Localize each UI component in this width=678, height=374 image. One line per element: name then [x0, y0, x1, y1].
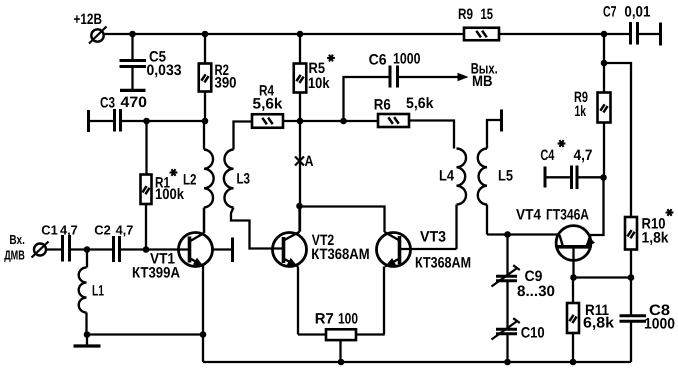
chassis stub left of C4: [544, 167, 547, 188]
resistor R6: [378, 114, 409, 127]
node R5 top: [297, 31, 304, 38]
wire R11 top lead: [572, 278, 574, 304]
wire L5 bottom lead: [486, 205, 488, 235]
label R5 value: [308, 75, 330, 92]
svg-text:L3: L3: [237, 170, 251, 187]
wire L2 top lead: [203, 121, 205, 150]
wire C7 right lead: [638, 33, 661, 35]
inductor L1: [79, 268, 87, 313]
node L1 bottom: [84, 331, 91, 338]
chassis stub right of C7: [659, 23, 662, 46]
wire VT3 collector up-left: [300, 207, 385, 233]
capacitor C2: [114, 236, 120, 262]
wire L5 to VT4 base line: [487, 233, 560, 235]
svg-text:С10: С10: [521, 324, 545, 341]
wire C4 left lead: [545, 176, 572, 178]
wire VT2 emitter down: [297, 267, 299, 335]
node C7/R9-1k top: [601, 31, 608, 38]
svg-text:ГТ346А: ГТ346А: [546, 206, 589, 223]
wire C8 bottom lead: [630, 321, 632, 362]
label R6: [374, 97, 391, 114]
label VT2: [312, 232, 334, 249]
label L3: [237, 170, 251, 187]
label R7: [315, 310, 334, 327]
svg-text:С2: С2: [94, 223, 111, 238]
node C9 column top: [504, 231, 511, 238]
capacitor C1: [63, 235, 70, 262]
node C10 on rail: [504, 359, 511, 366]
svg-text:R7: R7: [315, 310, 334, 327]
wire C1 to C2: [70, 248, 115, 250]
label C7: [603, 3, 617, 20]
wire R7 to VT3 emitter: [356, 333, 384, 336]
capacitor C6: [390, 66, 398, 88]
label R6 value: [406, 95, 434, 112]
trimmer capacitor C10: [492, 318, 520, 339]
label R1 value: [155, 186, 185, 203]
wire C9 to C10: [506, 281, 508, 329]
chassis stub left of C3: [87, 110, 90, 132]
node R2 top: [202, 31, 209, 38]
wire C3 left lead: [89, 120, 116, 122]
supply terminal +12V: [89, 27, 107, 44]
node R7 tap on rail: [338, 359, 345, 366]
asterisk R5: [327, 55, 335, 62]
label R10: [642, 215, 666, 232]
svg-text:0,033: 0,033: [147, 62, 182, 79]
wire R9-1k top lead: [603, 34, 605, 93]
wire L3 top lead to R4: [234, 122, 253, 150]
wire branch to R10: [604, 63, 631, 217]
label VT3: [420, 228, 446, 245]
label VT4 type: [546, 206, 589, 223]
svg-text:С7: С7: [603, 3, 617, 20]
wire VT4 base down: [572, 247, 574, 278]
label R9top value: [481, 6, 494, 23]
label R11: [585, 302, 609, 319]
wire ground line to VT1 emitter: [87, 333, 203, 335]
wire C6 to output arrow: [399, 76, 459, 78]
inductor L4: [457, 149, 467, 205]
label L1: [92, 282, 104, 299]
output arrow VHF out: [458, 73, 469, 81]
svg-text:1000: 1000: [644, 315, 675, 332]
wire C4node down to VT4 emitter: [590, 178, 604, 236]
svg-text:С6: С6: [369, 51, 387, 68]
wire L2 bottom to VT1 collector: [203, 208, 205, 234]
wire L1 bottom lead: [85, 313, 87, 335]
svg-text:L1: L1: [92, 282, 104, 299]
node VT1 emitter / ground line: [200, 331, 207, 338]
label C5 value: [147, 62, 182, 79]
resistor R1: [141, 175, 152, 205]
capacitor C3: [115, 109, 121, 132]
wire VT2 emitter to R7: [298, 333, 326, 335]
svg-text:5,6k: 5,6k: [253, 96, 284, 113]
label +12V: [74, 11, 103, 28]
capacitor C8: [620, 316, 647, 321]
resistor R10: [625, 217, 637, 250]
node R5/R4/R6 junction: [297, 118, 304, 125]
svg-text:470: 470: [121, 94, 148, 111]
node L1 top: [84, 246, 91, 253]
node R10 bottom / C8 top: [628, 274, 635, 281]
wire C3 to R2 node: [121, 120, 206, 122]
wire L5 top stub: [487, 120, 501, 149]
label C6: [369, 51, 387, 68]
svg-text:0,01: 0,01: [624, 4, 650, 21]
transistor VT3: [377, 232, 411, 267]
wire L4 bottom to VT3 base: [455, 205, 457, 250]
capacitor C5: [120, 61, 147, 67]
svg-text:R9: R9: [458, 6, 473, 23]
label R4: [259, 83, 275, 100]
svg-text:VT3: VT3: [420, 228, 446, 245]
asterisk R1: [170, 169, 178, 176]
wire R2 bottom lead: [204, 92, 206, 122]
svg-text:L4: L4: [439, 167, 455, 184]
label output Vykh: [471, 60, 498, 77]
wire C9 top lead: [506, 235, 508, 277]
label VT4: [516, 206, 542, 223]
wire L1 top lead: [86, 250, 88, 268]
wire VT1 emitter down: [202, 266, 204, 335]
label C3 value: [121, 94, 148, 111]
node VT4 base / R11 top: [570, 274, 577, 281]
label C2 value: [116, 223, 134, 238]
label C1: [41, 223, 58, 238]
wire R5 bottom / VT2 collector line: [299, 93, 301, 232]
label R2 value: [215, 75, 237, 92]
svg-text:8...30: 8...30: [517, 283, 555, 300]
svg-text:4,7: 4,7: [116, 223, 134, 238]
svg-text:С4: С4: [540, 147, 554, 164]
asterisk C4: [558, 140, 566, 147]
resistor R5: [294, 64, 307, 93]
svg-text:10k: 10k: [308, 75, 330, 92]
wire R9-1k bottom lead: [603, 123, 605, 178]
label C3: [100, 95, 115, 112]
svg-text:1k: 1k: [575, 103, 587, 120]
svg-text:1000: 1000: [393, 51, 421, 68]
svg-text:390: 390: [215, 75, 237, 92]
label VT1: [150, 250, 175, 267]
label R7 value: [338, 310, 358, 327]
trimmer capacitor C9: [492, 265, 520, 286]
svg-text:15: 15: [481, 6, 494, 23]
capacitor C7: [631, 22, 638, 45]
wire top rail left (terminal to R9): [104, 33, 464, 35]
wire R1 bottom lead: [145, 204, 147, 250]
svg-text:МВ: МВ: [472, 73, 493, 90]
label C7 value: [624, 4, 650, 21]
label C4: [540, 147, 554, 164]
label C1 value: [60, 223, 78, 238]
inductor L2: [204, 150, 214, 208]
svg-text:100: 100: [338, 310, 358, 327]
inductor L5: [478, 149, 487, 205]
capacitor C4: [572, 166, 578, 190]
wire R4 right lead: [283, 120, 300, 122]
svg-text:L5: L5: [498, 167, 513, 184]
node R11 on rail: [570, 359, 577, 366]
transistor VT4: [556, 226, 595, 261]
wire R10 bottom lead: [630, 250, 632, 278]
node R10 branch: [601, 60, 608, 67]
node A cross mark: [295, 157, 304, 166]
label C8 value: [644, 315, 675, 332]
asterisk R10: [666, 209, 674, 216]
wire VT3 base right: [400, 248, 457, 250]
input terminal DMV: [32, 242, 49, 258]
label C9 value: [517, 283, 555, 300]
wire VT2 collector up: [298, 206, 300, 232]
wire R1 top lead: [145, 121, 147, 175]
wire top rail right (R9 to C7): [499, 33, 631, 35]
svg-text:4,7: 4,7: [60, 223, 78, 238]
wire VT1 collector up: [203, 208, 205, 233]
chassis stub above L5: [500, 110, 503, 132]
label R9b: [574, 89, 588, 106]
svg-text:КТ368АМ: КТ368АМ: [415, 254, 471, 271]
svg-text:+12В: +12В: [74, 11, 103, 28]
label C8: [649, 302, 670, 319]
svg-text:100k: 100k: [155, 186, 185, 203]
node C6 tap: [340, 118, 347, 125]
node VT2/VT3 collector junction: [296, 203, 303, 210]
svg-text:КТ368АМ: КТ368АМ: [311, 246, 369, 263]
svg-text:5,6k: 5,6k: [406, 95, 434, 112]
wire R6 right lead to L4: [409, 121, 454, 149]
label L5: [498, 167, 513, 184]
stub capacitor at VT1 right: [213, 238, 233, 263]
svg-text:6,8k: 6,8k: [583, 314, 615, 331]
wire VT3 emitter down: [383, 267, 385, 335]
node R2 bottom / L2 top: [202, 118, 209, 125]
wire C2 to VT1 base: [120, 248, 190, 250]
wire input to C1: [46, 248, 63, 250]
label L2: [183, 171, 197, 188]
svg-text:Вх.: Вх.: [9, 232, 25, 247]
label C6 value: [393, 51, 421, 68]
label C5: [149, 49, 166, 66]
transistor VT2: [273, 232, 307, 267]
svg-text:КТ399А: КТ399А: [132, 264, 180, 281]
label R9top: [458, 6, 473, 23]
wire C5 bottom lead: [131, 67, 133, 90]
resistor R2: [199, 64, 212, 92]
node R1 top: [143, 118, 150, 125]
label R5: [309, 60, 326, 77]
node R1 bottom / VT1 base: [143, 246, 150, 253]
label R2: [215, 62, 230, 79]
label input Vkh: [9, 232, 25, 247]
svg-text:VT4: VT4: [516, 206, 542, 223]
wire R5 top lead: [299, 34, 301, 64]
label R10 value: [642, 229, 670, 246]
label C4 value: [574, 147, 593, 164]
wire L3 bottom to VT2 base: [231, 208, 284, 249]
wire C6 left lead: [344, 77, 390, 121]
label R1: [155, 174, 170, 191]
label VT3 type: [415, 254, 471, 271]
svg-text:4,7: 4,7: [574, 147, 593, 164]
label C10: [521, 324, 545, 341]
svg-text:R6: R6: [374, 97, 391, 114]
node C4 junction: [600, 174, 607, 181]
wire R2 top lead: [204, 34, 206, 64]
label C9: [525, 268, 543, 285]
svg-text:1,8k: 1,8k: [642, 229, 670, 246]
wire C4 right lead: [577, 176, 604, 178]
label C2: [94, 223, 111, 238]
resistor R11: [567, 303, 579, 333]
wire R4node to R6: [300, 120, 378, 122]
wire C5 top lead: [131, 34, 133, 60]
label node A: [305, 153, 314, 170]
svg-text:ДМВ: ДМВ: [4, 247, 25, 262]
label L4: [439, 167, 455, 184]
label VT1 type: [132, 264, 180, 281]
resistor R9 (1k): [598, 93, 611, 123]
label R9b value: [575, 103, 587, 120]
svg-text:L2: L2: [183, 171, 197, 188]
wire VT4 node to R10/C8 node: [574, 276, 632, 278]
resistor R7 (adjustable): [326, 329, 356, 362]
node C5 top: [129, 31, 136, 38]
label output MV: [472, 73, 493, 90]
svg-text:А: А: [305, 153, 314, 170]
wire C8 top lead: [630, 278, 632, 316]
label input DMV: [4, 247, 25, 262]
resistor R9 (15 Ohm): [464, 28, 499, 41]
svg-text:С3: С3: [100, 95, 115, 112]
transistor VT1: [179, 233, 213, 267]
svg-text:С1: С1: [41, 223, 58, 238]
inductor L3: [224, 150, 234, 208]
label R11 value: [583, 314, 615, 331]
ground symbol bottom left: [74, 335, 101, 347]
wire R11 bottom lead: [572, 333, 574, 362]
resistor R4: [252, 114, 283, 128]
label VT2 type: [311, 246, 369, 263]
wire bottom rail: [203, 361, 631, 363]
wire VT1 emitter to bottom rail: [202, 335, 204, 363]
wire C10 bottom lead: [506, 334, 508, 362]
label R4 value: [253, 96, 284, 113]
ground chassis below C5: [120, 89, 146, 92]
